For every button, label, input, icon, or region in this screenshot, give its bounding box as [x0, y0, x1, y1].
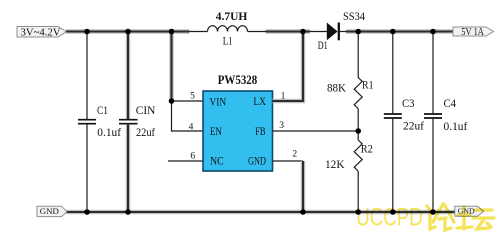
wire GND pin 2 to bottom rail — [273, 161, 304, 212]
junction C1 bottom — [84, 209, 90, 215]
svg-text:88K: 88K — [327, 80, 346, 94]
wire NC stub pin 6 — [168, 160, 203, 162]
junction LX node — [300, 29, 306, 35]
power flag output 5V 1A — [453, 27, 494, 38]
svg-text:4.7UH: 4.7UH — [216, 11, 248, 23]
junction C4 bottom — [430, 209, 436, 215]
svg-text:C4: C4 — [444, 96, 457, 110]
svg-text:0.1uf: 0.1uf — [97, 125, 121, 139]
svg-text:PW5328: PW5328 — [218, 72, 258, 87]
junction R2 bottom — [355, 209, 361, 215]
junction VIN pin — [169, 98, 175, 104]
capacitor C3 22uf — [384, 32, 424, 213]
ground flag GND right — [455, 206, 484, 216]
wire VIN branch vertical — [169, 32, 173, 102]
svg-text:5V 1A: 5V 1A — [461, 27, 484, 38]
capacitor CIN 22uf — [119, 32, 156, 213]
svg-text:CIN: CIN — [136, 103, 156, 117]
junction input/CIN — [125, 29, 131, 35]
svg-text:22uf: 22uf — [136, 125, 155, 139]
ground flag GND left — [37, 206, 67, 216]
diode D1 SS34 — [310, 9, 365, 52]
svg-text:NC: NC — [210, 156, 224, 168]
svg-text:C1: C1 — [97, 103, 108, 117]
junction FB — [355, 128, 361, 134]
watermark UCCPD forum — [356, 204, 494, 232]
svg-text:VIN: VIN — [210, 96, 227, 108]
svg-text:3: 3 — [279, 121, 284, 131]
junction C4 top — [430, 29, 436, 35]
svg-text:2: 2 — [292, 150, 297, 160]
wire top input rail — [66, 29, 208, 33]
svg-text:4: 4 — [189, 123, 194, 133]
junction input/VIN branch — [169, 29, 175, 35]
junction input/C1 — [84, 29, 90, 35]
svg-text:GND: GND — [40, 206, 59, 216]
wire LX node rail — [248, 31, 311, 33]
svg-text:UCCPD: UCCPD — [356, 204, 423, 232]
IC U1 PW5328 — [203, 72, 273, 171]
resistor R2 12K — [325, 131, 373, 212]
capacitor C1 0.1uf — [78, 32, 121, 213]
power flag input 3V~4.2V — [17, 26, 67, 38]
junction CIN bottom — [125, 209, 131, 215]
svg-text:LX: LX — [253, 96, 266, 108]
wire top output rail — [346, 29, 453, 33]
svg-text:3V~4.2V: 3V~4.2V — [21, 26, 61, 38]
capacitor C4 0.1uf — [424, 32, 467, 213]
svg-text:D1: D1 — [318, 40, 328, 52]
svg-text:6: 6 — [190, 151, 195, 161]
wire VIN pin 5 — [172, 100, 204, 102]
junction C3 top — [390, 29, 396, 35]
svg-text:SS34: SS34 — [343, 9, 365, 23]
svg-text:EN: EN — [210, 126, 222, 138]
resistor R1 88K — [327, 32, 374, 132]
svg-text:5: 5 — [190, 92, 195, 102]
svg-text:C3: C3 — [402, 96, 415, 110]
svg-text:FB: FB — [255, 126, 266, 138]
svg-text:R1: R1 — [362, 80, 374, 92]
svg-text:22uf: 22uf — [403, 118, 424, 132]
svg-text:L1: L1 — [223, 33, 233, 47]
svg-text:R2: R2 — [361, 143, 373, 155]
wire bottom ground rail — [66, 210, 455, 214]
junction R1 top — [355, 29, 361, 35]
svg-text:12K: 12K — [325, 157, 345, 171]
junction GND pin bottom — [300, 209, 306, 215]
svg-text:GND: GND — [248, 156, 266, 168]
svg-text:0.1uf: 0.1uf — [444, 119, 468, 133]
wire EN pin 4 branch — [172, 101, 204, 131]
wire LX pin 1 to rail — [273, 32, 304, 102]
inductor L1 4.7UH — [208, 11, 248, 48]
junction C3 bottom — [390, 209, 396, 215]
wire FB pin 3 — [273, 130, 359, 132]
